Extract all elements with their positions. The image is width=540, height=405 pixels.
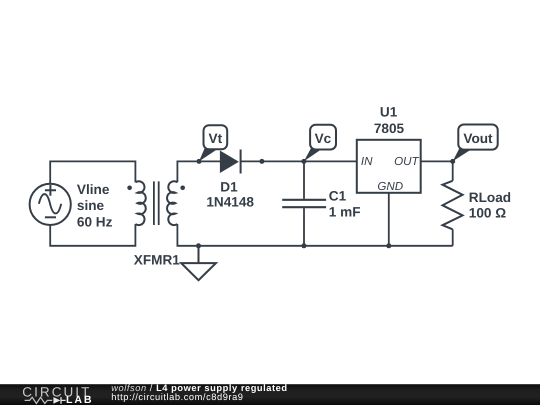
transformer XFMR1 secondary winding xyxy=(167,181,177,225)
wire xyxy=(241,160,357,162)
transformer XFMR1 secondary phase dot xyxy=(180,186,185,191)
svg-text:Vc: Vc xyxy=(315,131,332,146)
node Vt junction dot xyxy=(197,159,202,164)
junction dot capacitor bottom xyxy=(301,243,306,248)
svg-text:1 mF: 1 mF xyxy=(329,204,361,219)
svg-text:OUT: OUT xyxy=(394,155,419,168)
transformer XFMR1 primary phase dot xyxy=(127,186,132,191)
wire xyxy=(303,161,305,199)
node Vout junction dot xyxy=(450,159,455,164)
node Vout callout xyxy=(453,125,498,162)
svg-text:sine: sine xyxy=(77,198,105,213)
diode D1 xyxy=(220,150,241,174)
ground xyxy=(181,246,216,280)
wire xyxy=(177,161,220,182)
capacitor C1 xyxy=(282,200,326,207)
svg-text:GND: GND xyxy=(377,180,403,193)
resistor RLoad xyxy=(443,181,463,230)
transformer XFMR1 core xyxy=(154,181,159,225)
resistor RLoad labels RLoad 100 Ω xyxy=(469,190,511,220)
svg-text:LAB: LAB xyxy=(66,394,93,405)
wire xyxy=(177,224,452,246)
wire xyxy=(452,161,454,180)
ground junction dot xyxy=(196,243,201,248)
svg-text:D1: D1 xyxy=(220,180,238,195)
junction dot U1 GND bottom xyxy=(386,243,391,248)
svg-text:RLoad: RLoad xyxy=(469,190,511,205)
svg-text:XFMR1: XFMR1 xyxy=(134,253,181,268)
capacitor C1 labels C1 1 mF xyxy=(329,188,361,219)
svg-text:IN: IN xyxy=(361,155,373,168)
svg-text:http://circuitlab.com/c8d9ra9: http://circuitlab.com/c8d9ra9 xyxy=(111,392,243,402)
svg-text:1N4148: 1N4148 xyxy=(206,195,254,210)
svg-text:C1: C1 xyxy=(329,188,347,203)
diode D1 labels D1 1N4148 xyxy=(206,180,254,210)
U1 labels U1 7805 xyxy=(374,105,405,136)
CircuitLab logo resistor squiggle xyxy=(25,397,53,403)
wire xyxy=(388,193,390,246)
wire xyxy=(50,161,135,183)
svg-text:7805: 7805 xyxy=(374,121,405,136)
voltage source label Vline sine 60 Hz xyxy=(77,182,113,230)
op-amp U1 7805 regulator box xyxy=(357,140,421,193)
wire xyxy=(421,160,453,162)
wire xyxy=(452,229,454,246)
node Vt callout xyxy=(199,125,227,161)
svg-text:100 Ω: 100 Ω xyxy=(469,205,506,220)
wire xyxy=(303,208,305,246)
svg-text:U1: U1 xyxy=(380,105,398,120)
node Vc callout xyxy=(304,125,336,162)
svg-text:Vout: Vout xyxy=(463,131,493,146)
voltage source V1 Vline xyxy=(30,184,71,225)
CircuitLab logo diode symbol xyxy=(53,397,60,404)
node Vc junction dot xyxy=(301,159,306,164)
junction dot after diode xyxy=(259,159,264,164)
wire xyxy=(50,224,135,246)
svg-text:60 Hz: 60 Hz xyxy=(77,215,113,230)
svg-text:Vline: Vline xyxy=(77,182,110,197)
transformer XFMR1 primary winding xyxy=(135,181,145,225)
svg-text:Vt: Vt xyxy=(209,131,223,146)
